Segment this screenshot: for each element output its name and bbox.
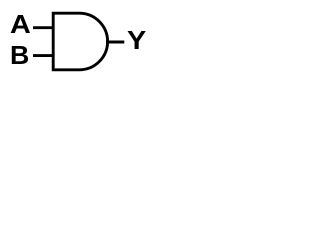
AND gate U1 [53,13,107,70]
node Y label [127,28,146,54]
node B label [10,43,29,69]
wire Y output [106,41,124,44]
wire B input [33,54,53,57]
node A label [10,13,31,39]
wire A input [33,26,53,29]
